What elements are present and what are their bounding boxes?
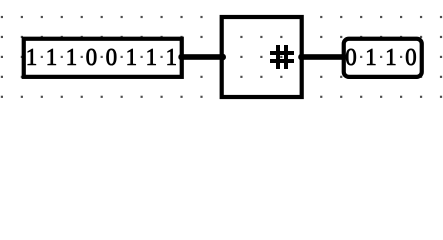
input register IN, 8-bit value 11100111 [24, 39, 182, 77]
digit 1 [48, 49, 56, 65]
grid dots [1, 16, 442, 98]
wire W1 [180, 54, 223, 60]
# symbol of U1 [270, 45, 294, 69]
digit 0 [87, 49, 97, 65]
digit 1 [68, 49, 76, 65]
digit 1 [148, 49, 156, 65]
bit counter U1 [222, 17, 302, 97]
bit digits of OUT: 0 1 1 0 [346, 49, 416, 65]
node: U1 input pin [219, 54, 226, 61]
digit 0 [107, 49, 117, 65]
bit digits of IN: 1 1 1 0 0 1 1 1 [28, 49, 176, 65]
digit 1 [168, 49, 176, 65]
digit 1 [28, 49, 36, 65]
wire W2 [300, 54, 345, 60]
digit 0 [346, 49, 356, 65]
digit 1 [128, 49, 136, 65]
node: OUT input pin [340, 54, 347, 61]
digit 0 [406, 49, 416, 65]
output register OUT, 4-bit value 0110 [344, 39, 422, 77]
node: U1 output pin [298, 54, 305, 61]
node: IN output pin [178, 54, 185, 61]
digit 1 [367, 49, 375, 65]
digit 1 [387, 49, 395, 65]
